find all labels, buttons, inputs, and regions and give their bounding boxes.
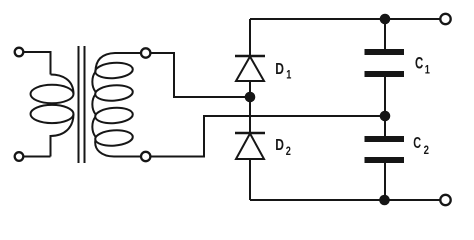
transformer T1 secondary loop 3 <box>95 107 134 125</box>
transformer T1 secondary connector 1-2 <box>92 72 95 92</box>
terminal primary bottom-left <box>15 152 24 161</box>
transformer core line 1 <box>78 46 80 163</box>
svg-text:2: 2 <box>424 144 429 157</box>
svg-text:1: 1 <box>286 70 291 82</box>
diode D2 cathode lead <box>249 97 251 133</box>
wire secondary bottom to C junction <box>151 116 386 157</box>
wire top rail <box>250 18 440 20</box>
transformer T1 primary loop 2 <box>31 105 74 123</box>
capacitor C1 plate 1 <box>365 49 405 55</box>
transformer T1 secondary entry swoop <box>96 53 142 72</box>
transformer core line 2 <box>84 46 86 163</box>
terminal primary top-left <box>15 48 24 57</box>
svg-text:D: D <box>275 60 284 78</box>
wire bottom rail <box>250 199 440 201</box>
transformer T1 primary exit hook <box>51 114 74 157</box>
transformer T1 primary loop 1 <box>31 85 74 103</box>
diode D1 anode lead <box>249 81 251 97</box>
capacitor C2 plate 2 <box>365 157 405 163</box>
wire secondary top to D junction <box>151 53 251 97</box>
label D1 <box>275 60 291 82</box>
diode D1 cathode bar <box>235 55 265 58</box>
diode D2 triangle <box>236 134 264 160</box>
transformer T1 secondary connector 2-3 <box>92 94 95 114</box>
svg-text:C: C <box>415 53 423 72</box>
svg-text:C: C <box>413 134 421 151</box>
diode D1 triangle <box>236 57 264 82</box>
terminal secondary bottom <box>141 152 150 161</box>
node bottom rail junction <box>379 195 390 206</box>
transformer T1 secondary loop 1 <box>95 62 134 80</box>
node top rail junction <box>380 14 391 25</box>
svg-text:2: 2 <box>286 146 291 158</box>
wire C1 bottom lead <box>384 77 386 116</box>
transformer T1 secondary exit swoop <box>95 139 141 156</box>
wire primary bottom lead <box>24 156 51 158</box>
label D2 <box>275 136 291 159</box>
node junction D1-D2 <box>245 92 256 103</box>
svg-text:D: D <box>275 136 284 154</box>
wire primary top lead <box>24 52 51 75</box>
label C2 <box>413 134 429 157</box>
diode D2 anode lead <box>249 159 251 200</box>
wire C1 top lead <box>384 19 386 49</box>
transformer T1 secondary loop 2 <box>95 84 134 102</box>
diode D1 cathode lead <box>249 19 251 56</box>
capacitor C2 plate 1 <box>365 136 405 142</box>
terminal secondary top <box>141 48 150 57</box>
capacitor C1 plate 2 <box>365 71 405 77</box>
label C1 <box>415 53 430 76</box>
wire C2 bottom lead <box>384 163 386 200</box>
diode D2 cathode bar <box>235 132 265 135</box>
svg-text:1: 1 <box>425 64 430 76</box>
node mid rail junction <box>380 111 391 122</box>
transformer T1 secondary loop 4 <box>95 129 134 147</box>
transformer T1 secondary connector 3-4 <box>92 117 95 137</box>
terminal output top-right <box>440 14 450 24</box>
terminal output bottom-right <box>440 195 450 205</box>
transformer T1 primary entry hook <box>51 75 74 95</box>
wire C2 top lead <box>384 116 386 136</box>
